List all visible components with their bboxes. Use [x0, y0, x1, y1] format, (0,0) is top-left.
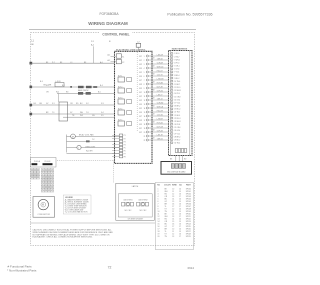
svg-text:B-1: B-1 [34, 103, 37, 105]
svg-text:26 GY-4: 26 GY-4 [174, 130, 180, 132]
svg-text:RY8: RY8 [139, 84, 142, 86]
terminal ticks y141 [86, 140, 90, 142]
drop from y93.5 to switch block [58, 94, 60, 103]
wire color labels BK WH [40, 81, 52, 87]
svg-text:WIRE: WIRE [172, 184, 177, 186]
svg-text:3: 3 [144, 64, 145, 66]
svg-text:T-BR-5B: T-BR-5B [157, 59, 163, 61]
relay K7 [118, 119, 132, 126]
pin grid B [41, 169, 54, 193]
svg-text:5: 5 [144, 72, 145, 74]
J1 bottom cells [175, 149, 187, 153]
motor M2 symbol [38, 199, 48, 209]
svg-text:13: 13 [172, 236, 174, 238]
board right edge pins with circles [144, 55, 156, 142]
svg-text:NO C NC: NO C NC [125, 210, 133, 212]
svg-text:W-1 WH: W-1 WH [86, 151, 93, 153]
svg-text:25 OR-6: 25 OR-6 [174, 127, 180, 129]
svg-text:RLY 3: RLY 3 [118, 97, 122, 99]
relay K3 [118, 75, 132, 82]
svg-text:12: 12 [144, 100, 146, 102]
door latch assembly box [116, 183, 155, 220]
relay K1 [116, 54, 121, 58]
svg-text:16 GY-6: 16 GY-6 [174, 99, 180, 101]
svg-text:V-OR-1R: V-OR-1R [157, 63, 164, 65]
svg-text:72: 72 [108, 266, 112, 270]
svg-text:L-1: L-1 [70, 62, 73, 64]
svg-text:W-2: W-2 [56, 91, 59, 93]
wire y105 [31, 104, 115, 106]
svg-text:Y-GY-7O: Y-GY-7O [157, 75, 164, 77]
svg-text:23 WH-1: 23 WH-1 [174, 121, 180, 123]
title rule [29, 29, 196, 31]
svg-text:21 BK-5: 21 BK-5 [174, 115, 180, 117]
J1 inner left edge line [169, 51, 171, 156]
svg-text:OVEN LIGHT: OVEN LIGHT [85, 147, 95, 149]
relay K5 [118, 97, 132, 104]
svg-text:M: M [42, 204, 44, 207]
border title CONTROL PANEL [100, 31, 132, 37]
svg-text:Y-GY-3G: Y-GY-3G [157, 115, 164, 117]
svg-text:B-2: B-2 [62, 85, 65, 87]
svg-text:V-3: V-3 [101, 103, 104, 105]
svg-text:14: 14 [144, 108, 146, 110]
svg-text:RY7: RY7 [139, 80, 142, 82]
svg-text:30 TN-5: 30 TN-5 [174, 143, 180, 145]
wires J1 to display board [170, 156, 187, 162]
svg-text:18: 18 [153, 82, 155, 84]
svg-text:19: 19 [144, 128, 146, 130]
svg-text:RY4: RY4 [139, 68, 142, 70]
terminal block P2 [136, 43, 140, 47]
wire chart rows [158, 188, 191, 238]
harness connector J1 [169, 51, 193, 156]
latch switch S3 [137, 199, 149, 213]
svg-text:P2: P2 [124, 138, 126, 140]
svg-text:21: 21 [144, 136, 146, 138]
svg-text:22: 22 [144, 140, 146, 142]
wire L2 drop [137, 47, 139, 51]
svg-text:WIRING DIAGRAM: WIRING DIAGRAM [88, 21, 128, 26]
svg-text:L-WH-8Y: L-WH-8Y [157, 119, 163, 121]
junction at left border y87 [30, 86, 33, 89]
svg-text:W-RD-2B: W-RD-2B [157, 107, 163, 109]
svg-text:A-6: A-6 [100, 61, 103, 64]
svg-text:RY3: RY3 [139, 64, 142, 66]
svg-text:18: 18 [153, 122, 155, 124]
svg-text:28 BR-0: 28 BR-0 [174, 136, 180, 138]
svg-text:2 RD-7: 2 RD-7 [174, 56, 179, 58]
svg-text:MAIN HARNESS: MAIN HARNESS [172, 48, 188, 51]
svg-text:16: 16 [144, 116, 146, 118]
wire y141 [67, 140, 120, 142]
harness wire gauge labels [153, 58, 155, 140]
svg-text:B-VT-0W: B-VT-0W [157, 127, 164, 129]
wire y136.9 [67, 135, 120, 137]
board edge connector P3 cells [119, 134, 122, 158]
svg-text:RY9: RY9 [139, 88, 142, 90]
junction at left border y105 [30, 104, 33, 107]
black bar A [32, 163, 38, 165]
svg-text:P1: P1 [124, 135, 126, 137]
wire y152.5 [67, 153, 120, 155]
svg-text:RY1: RY1 [139, 128, 142, 130]
main diagram border box [31, 33, 195, 246]
svg-text:18: 18 [153, 106, 155, 108]
svg-text:20: 20 [158, 236, 160, 238]
motor M1 (fan) [71, 134, 76, 139]
latch switch S2 [122, 199, 134, 213]
svg-text:18: 18 [153, 130, 155, 132]
switch block S1 [59, 102, 68, 121]
svg-text:RY9: RY9 [139, 124, 142, 126]
svg-text:17 VT-4: 17 VT-4 [174, 102, 180, 104]
svg-text:1 BK-0: 1 BK-0 [174, 53, 179, 55]
latch inner box [118, 194, 152, 217]
black bar B [43, 163, 53, 165]
svg-text:P4: P4 [124, 144, 126, 146]
svg-text:17: 17 [179, 236, 181, 238]
svg-text:RLY 2: RLY 2 [118, 86, 122, 88]
svg-text:19 BU-0: 19 BU-0 [174, 109, 180, 111]
wire L1 feed y64 [31, 62, 115, 64]
svg-text:20 TN-7: 20 TN-7 [174, 112, 180, 114]
fuse F2 on y87 [86, 86, 92, 88]
svg-text:4: 4 [144, 68, 145, 70]
node label B-1 [34, 103, 43, 105]
board inner dashed divider [136, 52, 138, 131]
svg-text:LATCH: LATCH [132, 185, 139, 188]
wire drop from labels to L1 feed [93, 46, 95, 63]
svg-text:Y-1: Y-1 [52, 112, 55, 114]
assorted wire labels upper left [46, 61, 103, 117]
P3 pin labels [124, 135, 126, 158]
svg-text:A-2: A-2 [108, 59, 111, 62]
svg-text:14 PK-1: 14 PK-1 [174, 93, 180, 95]
board interior pin names [139, 56, 142, 134]
svg-text:B-VT-4R: B-VT-4R [157, 87, 164, 89]
junction dot on y87 [70, 86, 72, 88]
junction at left border y64 [30, 62, 33, 65]
svg-text:DR SWITCH ASSY: DR SWITCH ASSY [128, 217, 144, 220]
wire broil circuit y93.5 [57, 93, 115, 95]
footer functional parts note [7, 265, 37, 273]
svg-text:NO C NC: NO C NC [140, 210, 148, 212]
connector header labels [34, 160, 50, 163]
node labels P-1 / A-2 [91, 41, 95, 47]
svg-text:L-BK-1R: L-BK-1R [157, 135, 164, 137]
svg-text:RY2: RY2 [139, 96, 142, 98]
wire chart box [155, 183, 193, 250]
svg-text:18: 18 [153, 66, 155, 68]
svg-text:Y-3: Y-3 [86, 112, 89, 114]
svg-text:RY8: RY8 [139, 120, 142, 122]
svg-text:L-BK-0W: L-BK-0W [157, 55, 164, 57]
P3 stub wires [112, 135, 119, 156]
svg-text:B-5: B-5 [98, 91, 101, 93]
svg-text:RY5: RY5 [139, 72, 142, 74]
svg-text:2: 2 [144, 60, 145, 62]
svg-text:P-2: P-2 [52, 62, 55, 64]
svg-text:P3: P3 [124, 141, 126, 143]
svg-text:CONV MOTOR: CONV MOTOR [38, 214, 51, 216]
svg-text:11 BK-7: 11 BK-7 [174, 84, 180, 86]
wire y114 [31, 113, 115, 115]
pin stub A-2 into board [108, 59, 117, 62]
wire run above notes y223 [31, 222, 156, 224]
svg-text:EQUIVALENT. CHECK ALL CONNECTI: EQUIVALENT. CHECK ALL CONNECTIONS AFTER … [33, 236, 94, 239]
svg-text:RLY 5: RLY 5 [118, 119, 122, 121]
wire y117 [63, 116, 115, 118]
legend rows [65, 198, 89, 213]
relay K2 [116, 59, 121, 63]
svg-text:18: 18 [153, 98, 155, 100]
svg-text:P6: P6 [124, 150, 126, 152]
svg-text:L-BK-5Y: L-BK-5Y [157, 95, 163, 97]
svg-text:15 OR-8: 15 OR-8 [174, 96, 180, 98]
convection motor box [33, 197, 55, 218]
junction at left border y114 [30, 113, 33, 116]
vertical bus x66.5 [66, 135, 68, 153]
svg-text:18: 18 [144, 124, 146, 126]
svg-text:13: 13 [144, 104, 146, 106]
pin grid A [31, 169, 40, 180]
svg-text:R-TN-8B: R-TN-8B [157, 83, 163, 85]
element symbol on y93.5 [78, 92, 83, 95]
svg-text:18: 18 [153, 90, 155, 92]
svg-text:8 BR-4: 8 BR-4 [174, 75, 179, 77]
svg-text:BAKE 2800W: BAKE 2800W [78, 89, 89, 92]
svg-text:12 RD-5: 12 RD-5 [174, 87, 180, 89]
svg-text:11: 11 [144, 96, 146, 98]
svg-text:RY1: RY1 [139, 56, 142, 58]
fuse F1 on y87 [78, 86, 84, 88]
svg-text:10 TN-0: 10 TN-0 [174, 81, 180, 83]
svg-text:27 VT-2: 27 VT-2 [174, 133, 180, 135]
legend list box [63, 195, 91, 214]
connector face view box [31, 158, 57, 168]
svg-text:6 GY-8: 6 GY-8 [174, 69, 179, 71]
svg-text:B-3: B-3 [40, 81, 43, 83]
svg-text:R-TN-4O: R-TN-4O [157, 123, 164, 125]
node L1 [31, 40, 34, 47]
svg-text:K1: K1 [122, 56, 124, 58]
notes block [33, 229, 114, 239]
svg-text:RY2: RY2 [139, 60, 142, 62]
element symbol 2 on y93.5 [86, 92, 91, 95]
svg-text:P-BU-7R: P-BU-7R [157, 111, 164, 113]
svg-text:V-2: V-2 [86, 103, 89, 105]
J1 inner edge line [189, 51, 191, 156]
svg-text:RLY 1: RLY 1 [118, 75, 122, 77]
svg-text:M: M [72, 136, 74, 138]
display board cells [171, 164, 185, 169]
svg-text:15: 15 [144, 112, 146, 114]
svg-text:K2: K2 [122, 62, 124, 64]
svg-text:RY2: RY2 [139, 132, 142, 134]
svg-text:T-BR-1O: T-BR-1O [157, 99, 164, 101]
wire labels near switch [70, 103, 104, 117]
svg-text:P-BU-2Y: P-BU-2Y [157, 71, 163, 73]
svg-text:L-WH-3W: L-WH-3W [157, 79, 164, 81]
svg-text:P7: P7 [124, 154, 126, 156]
svg-text:10: 10 [144, 92, 146, 94]
svg-text:G-PK-0G: G-PK-0G [157, 91, 164, 93]
relay DLB [55, 81, 64, 87]
svg-text:20: 20 [144, 132, 146, 134]
svg-text:PLUG B: PLUG B [45, 161, 51, 163]
svg-text:18: 18 [153, 74, 155, 76]
svg-text:9 BU-2: 9 BU-2 [174, 78, 179, 80]
wire chart headers [157, 183, 191, 186]
svg-text:RY6: RY6 [139, 112, 142, 114]
svg-text:29 BU-7: 29 BU-7 [174, 139, 180, 141]
svg-text:RY6: RY6 [139, 76, 142, 78]
relay K6 [118, 108, 132, 115]
svg-text:SP119: SP119 [186, 236, 191, 238]
svg-text:Y-2 COOLING FAN MOTOR: Y-2 COOLING FAN MOTOR [65, 210, 88, 213]
svg-text:24 PK-8: 24 PK-8 [174, 124, 180, 126]
svg-text:7 VT-6: 7 VT-6 [174, 72, 179, 74]
svg-text:W-RD-6G: W-RD-6G [157, 67, 164, 69]
svg-text:18 BR-2: 18 BR-2 [174, 106, 180, 108]
svg-text:* Non-Illustrated Parts: * Non-Illustrated Parts [7, 268, 37, 272]
svg-text:CONTROL PANEL: CONTROL PANEL [102, 32, 129, 36]
svg-text:13 WH-3: 13 WH-3 [174, 90, 180, 92]
terminal on y87 [93, 86, 97, 88]
oven control board U1 [115, 51, 153, 163]
svg-text:G-PK-5B: G-PK-5B [157, 131, 163, 133]
svg-text:ELECTRONIC OVEN CONTROL: ELECTRONIC OVEN CONTROL [116, 49, 146, 51]
dashed wire to door latch [57, 161, 114, 184]
svg-text:BR A-7 COOL FAN: BR A-7 COOL FAN [79, 134, 94, 137]
svg-text:22 RD-3: 22 RD-3 [174, 118, 180, 120]
display board U2 [161, 162, 192, 175]
svg-text:RY3: RY3 [139, 100, 142, 102]
svg-text:Y-2: Y-2 [92, 139, 95, 141]
svg-text:18: 18 [153, 114, 155, 116]
svg-text:W-3: W-3 [80, 115, 83, 117]
svg-text:6: 6 [144, 76, 145, 78]
svg-text:V-5: V-5 [101, 115, 104, 117]
svg-text:Publication No. 5995577336: Publication No. 5995577336 [167, 12, 212, 16]
svg-text:7: 7 [144, 80, 145, 82]
pin stub A-1 into board [108, 53, 117, 56]
svg-text:RY1: RY1 [139, 92, 142, 94]
svg-text:V-OR-6W: V-OR-6W [157, 103, 164, 105]
svg-text:V-1: V-1 [52, 103, 55, 105]
svg-text:18: 18 [153, 58, 155, 60]
svg-text:A-1: A-1 [108, 53, 111, 56]
svg-text:B-4: B-4 [100, 85, 103, 87]
svg-text:FGF368GBA: FGF368GBA [99, 12, 119, 16]
svg-text:COLOR: COLOR [164, 184, 171, 186]
svg-text:V-4: V-4 [101, 112, 104, 114]
svg-text:4 PK-3: 4 PK-3 [174, 62, 179, 64]
svg-text:9: 9 [144, 88, 145, 90]
svg-text:RY7: RY7 [139, 116, 142, 118]
lamp L (oven light) [77, 145, 81, 149]
svg-text:VSD DISPLAY BOARD: VSD DISPLAY BOARD [167, 170, 186, 173]
svg-text:8: 8 [144, 84, 145, 86]
svg-text:0614: 0614 [188, 266, 195, 270]
svg-text:P8: P8 [124, 157, 126, 159]
svg-text:5 OR-1: 5 OR-1 [174, 66, 179, 68]
svg-text:18: 18 [153, 138, 155, 140]
svg-text:P5: P5 [124, 147, 126, 149]
relay K4 [118, 86, 132, 93]
svg-text:17: 17 [144, 120, 146, 122]
svg-text:RY4: RY4 [139, 104, 142, 106]
wire y148.8 [67, 147, 120, 149]
wire bake circuit y87 [31, 86, 115, 88]
J1 pins [171, 52, 181, 144]
harness wires between board and connector J1 [156, 55, 169, 141]
svg-text:RY5: RY5 [139, 108, 142, 110]
svg-text:RLY 4: RLY 4 [118, 108, 122, 110]
svg-text:3 WH-5: 3 WH-5 [174, 59, 180, 61]
svg-text:1: 1 [144, 56, 145, 58]
svg-text:T-BR-6G: T-BR-6G [157, 139, 164, 141]
